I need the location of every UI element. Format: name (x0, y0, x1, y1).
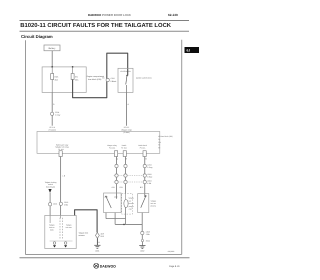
svg-text:F4: F4 (158, 139, 160, 141)
svg-text:E6: E6 (102, 77, 104, 79)
thick branch from actuator box to diamond (75, 210, 98, 233)
svg-text:Hatch: Hatch (122, 145, 126, 147)
fuse Ef21 (left) (51, 67, 54, 93)
svg-text:30A: 30A (55, 79, 58, 81)
svg-text:L B: L B (63, 175, 66, 177)
svg-text:62-139: 62-139 (168, 13, 178, 17)
svg-text:Wagon relay: Wagon relay (107, 145, 117, 147)
svg-text:DAEWOO: DAEWOO (100, 264, 116, 268)
connector on ground chain (141, 231, 144, 234)
svg-text:(5dr): (5dr) (50, 229, 53, 231)
svg-text:5DR: 5DR (101, 236, 105, 238)
svg-text:6 Blue: 6 Blue (147, 176, 152, 178)
svg-text:1 Gray: 1 Gray (55, 114, 60, 116)
svg-text:DAEWOO POWER DOOR LOCK: DAEWOO POWER DOOR LOCK (88, 14, 131, 17)
connector row 2 with dashed tie (114, 175, 147, 177)
right switch box (138, 194, 149, 213)
svg-text:4DR: 4DR (101, 233, 105, 235)
svg-text:C904: C904 (147, 180, 151, 182)
svg-text:C902: C902 (64, 202, 68, 204)
I/P fuse block box (37, 132, 160, 154)
svg-text:S206: S206 (146, 240, 150, 242)
dashed actuator internals (59, 218, 61, 239)
footer logo (94, 263, 99, 268)
ground G901 (94, 245, 100, 248)
svg-text:I/P-G 1: I/P-G 1 (124, 126, 130, 128)
svg-text:2 Blk: 2 Blk (146, 234, 150, 236)
svg-text:F2 15A: F2 15A (121, 147, 127, 149)
svg-text:4 Blk: 4 Blk (147, 182, 151, 184)
svg-text:Tailgate: Tailgate (151, 200, 157, 202)
wire: right fuse to ignition switch (dark loop) (73, 53, 128, 97)
svg-text:C905: C905 (146, 231, 150, 233)
svg-text:8 Black: 8 Black (111, 80, 117, 82)
svg-text:R B: R B (120, 187, 123, 189)
ignition switch blade (126, 75, 128, 77)
svg-text:switch: switch (48, 184, 53, 186)
svg-text:C204: C204 (147, 164, 151, 166)
svg-text:(Notchback): (Notchback) (46, 186, 55, 188)
svg-text:2 Blk: 2 Blk (64, 204, 68, 206)
diagram frame bottom rule (25, 253, 181, 257)
svg-text:IGNITION SW: IGNITION SW (120, 71, 131, 73)
ground symbols inside actuator box (53, 242, 56, 245)
wire stub middle pin inside actuator box (59, 215, 62, 218)
svg-text:I/P-G 4: I/P-G 4 (49, 126, 55, 128)
svg-text:G B: G B (111, 187, 114, 189)
svg-text:lock sw: lock sw (151, 203, 156, 205)
svg-text:Tailgate: Tailgate (129, 197, 134, 199)
connector C204 on left wire (50, 112, 53, 115)
ignition switch box (118, 68, 133, 92)
svg-text:6J: 6J (187, 49, 191, 53)
svg-text:F9 10A: F9 10A (140, 147, 146, 149)
svg-text:G: G (128, 104, 129, 106)
svg-text:High beam relay: High beam relay (56, 144, 69, 146)
svg-text:B R: B R (140, 187, 143, 189)
svg-text:R: R (126, 158, 127, 160)
svg-text:B: B (99, 242, 100, 244)
svg-text:C200: C200 (111, 78, 115, 80)
wire diamond to ground (96, 238, 100, 245)
svg-text:Tailgate: Tailgate (66, 224, 72, 226)
wire stub left pin inside actuator box (49, 215, 52, 223)
svg-text:F2: F2 (158, 144, 160, 146)
svg-text:62Q3001: 62Q3001 (168, 251, 175, 253)
svg-text:Engine compartment: Engine compartment (87, 75, 105, 77)
svg-text:lock: lock (129, 200, 132, 202)
right group: three wires from I/P box (115, 157, 118, 199)
middle dashed box with motor (122, 194, 133, 215)
footer rule (20, 256, 190, 260)
diagram frame right border (180, 40, 184, 255)
svg-text:B: B (146, 158, 147, 160)
tailgate lock actuator box (bottom-left) (45, 215, 76, 248)
svg-text:F11: F11 (158, 142, 161, 144)
section tab (black, right edge) (185, 47, 200, 53)
svg-text:Ignition switch (IG1): Ignition switch (IG1) (136, 77, 151, 79)
svg-text:G901: G901 (95, 250, 99, 252)
svg-text:Battery: Battery (49, 47, 56, 50)
left switch box (104, 193, 122, 213)
svg-text:lock actr: lock actr (66, 227, 72, 229)
engine compartment fuse box (42, 67, 86, 93)
fuse Ef1 (right) (71, 67, 74, 80)
junction node dot right (72, 66, 74, 68)
svg-text:UNLK: UNLK (114, 196, 118, 198)
svg-text:2 Gray: 2 Gray (147, 167, 152, 169)
svg-text:R: R (53, 104, 54, 106)
svg-text:C204: C204 (55, 112, 59, 114)
svg-text:Tailgate: Tailgate (49, 224, 55, 226)
junction node dot left (51, 66, 53, 68)
diamond splice (95, 233, 99, 239)
svg-text:(Notch): (Notch) (151, 205, 156, 207)
ground G902 (139, 246, 145, 249)
svg-text:Ef21: Ef21 (55, 76, 59, 78)
svg-text:30A: 30A (75, 79, 78, 81)
svg-text:Tailgate lock relay: Tailgate lock relay (55, 146, 69, 148)
svg-text:G902: G902 (140, 250, 144, 252)
svg-text:Tailgate locking: Tailgate locking (45, 182, 57, 184)
merge wires below switch boxes (104, 213, 107, 219)
svg-text:G: G (117, 158, 118, 160)
svg-text:F11 10A: F11 10A (109, 147, 115, 149)
svg-text:(Twisted): (Twisted) (49, 129, 56, 131)
svg-text:Circuit Diagram: Circuit Diagram (21, 34, 53, 39)
title rule (20, 29, 190, 33)
connector row 3 with dashed tie (114, 181, 147, 183)
svg-text:Page 9-19: Page 9-19 (169, 265, 179, 268)
svg-text:actuator: actuator (129, 203, 134, 205)
connector on lower left wire (59, 202, 62, 205)
svg-text:Notch back: Notch back (138, 145, 147, 147)
svg-text:actuator: actuator (79, 235, 85, 237)
svg-text:Tailgate lock: Tailgate lock (79, 232, 89, 234)
diagram frame left border (24, 40, 28, 254)
header rule (20, 19, 190, 23)
svg-text:lock sw: lock sw (49, 227, 54, 229)
wire ignition switch down (125, 92, 128, 125)
splice (141, 239, 143, 241)
wire battery to fuse box (51, 51, 54, 67)
connector row 1 (115, 164, 118, 167)
svg-text:B1020-11 CIRCUIT FAULTS FOR TH: B1020-11 CIRCUIT FAULTS FOR THE TAILGATE… (20, 22, 171, 29)
wire left fuse down (51, 92, 54, 125)
svg-text:fuse block (E/B): fuse block (E/B) (88, 78, 101, 80)
svg-text:C901: C901 (53, 203, 57, 205)
svg-text:C903: C903 (147, 174, 151, 176)
svg-text:(Wagon only): (Wagon only) (121, 129, 131, 131)
lower left wire (59, 157, 62, 216)
svg-text:Ef1: Ef1 (75, 76, 78, 78)
wire internal bus to grounds (50, 240, 73, 242)
svg-text:I/P fuse block (J/B): I/P fuse block (J/B) (158, 136, 172, 138)
svg-text:(Wagon: (Wagon (129, 206, 134, 208)
connector on riser (106, 78, 109, 81)
battery box (44, 45, 60, 51)
bottom edge fuses (4 exits) (59, 151, 146, 157)
svg-text:F9: F9 (158, 147, 160, 149)
svg-text:F4 10A: F4 10A (58, 149, 64, 151)
svg-text:only): only) (129, 208, 132, 210)
